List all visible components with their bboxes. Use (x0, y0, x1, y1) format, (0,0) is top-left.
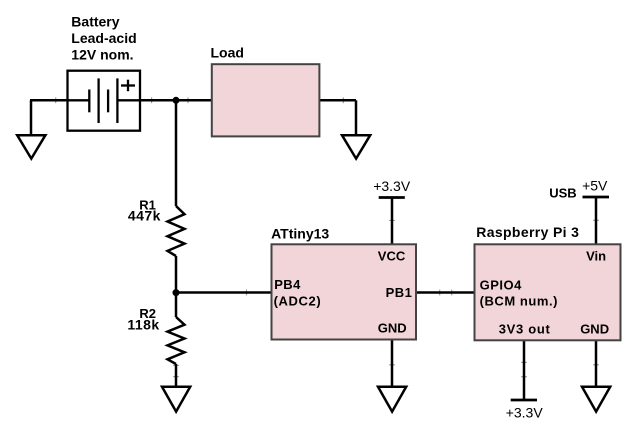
svg-text:USB: USB (549, 185, 576, 200)
svg-text:PB1: PB1 (386, 285, 413, 300)
svg-text:(BCM num.): (BCM num.) (480, 294, 558, 309)
svg-text:Lead-acid: Lead-acid (71, 30, 136, 46)
svg-text:+3.3V: +3.3V (506, 404, 544, 420)
svg-text:Raspberry Pi 3: Raspberry Pi 3 (476, 224, 579, 240)
svg-text:3V3 out: 3V3 out (499, 321, 551, 336)
svg-text:VCC: VCC (378, 249, 406, 264)
svg-text:GND: GND (580, 321, 609, 336)
svg-text:118k: 118k (127, 316, 159, 332)
svg-text:GND: GND (378, 321, 407, 336)
svg-text:(ADC2): (ADC2) (274, 293, 322, 308)
svg-text:12V nom.: 12V nom. (71, 46, 133, 62)
svg-text:+5V: +5V (582, 177, 608, 193)
svg-text:Vin: Vin (586, 249, 606, 264)
svg-text:ATtiny13: ATtiny13 (271, 226, 329, 242)
svg-text:+3.3V: +3.3V (373, 178, 411, 194)
svg-text:GPIO4: GPIO4 (480, 277, 523, 292)
svg-text:Battery: Battery (71, 14, 119, 30)
svg-text:Load: Load (211, 45, 244, 61)
svg-text:447k: 447k (128, 208, 161, 224)
svg-text:PB4: PB4 (274, 277, 301, 292)
